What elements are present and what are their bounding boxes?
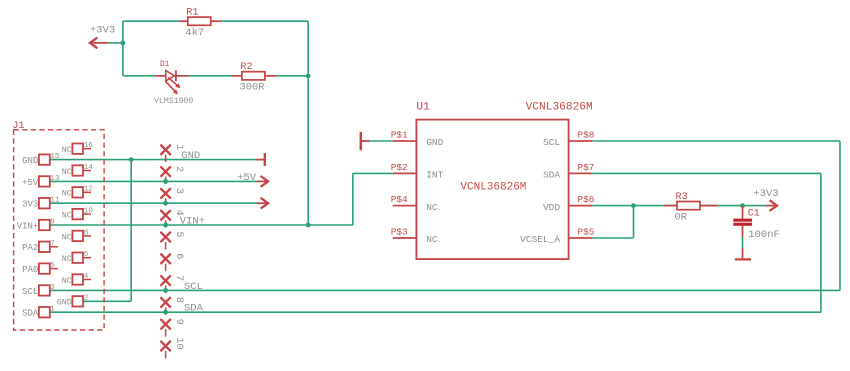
svg-text:NC: NC (62, 167, 72, 177)
svg-text:6: 6 (173, 253, 185, 259)
svg-text:R3: R3 (676, 192, 688, 203)
svg-text:SDA: SDA (184, 303, 204, 315)
svg-text:+5V: +5V (237, 172, 257, 184)
svg-text:3: 3 (50, 284, 55, 292)
svg-text:NC: NC (62, 254, 72, 264)
svg-text:P$2: P$2 (391, 162, 408, 173)
svg-text:PA0: PA0 (22, 265, 38, 275)
svg-text:SCL: SCL (184, 281, 203, 293)
svg-text:2: 2 (84, 295, 89, 303)
svg-text:VCNL36826M: VCNL36826M (526, 101, 593, 113)
svg-text:GND: GND (181, 150, 200, 162)
svg-text:5: 5 (173, 231, 185, 237)
svg-text:R1: R1 (186, 8, 198, 19)
svg-text:13: 13 (50, 175, 60, 183)
svg-text:0R: 0R (675, 211, 688, 223)
svg-text:2: 2 (173, 166, 185, 172)
svg-text:VLMS1900: VLMS1900 (154, 97, 193, 106)
svg-text:100nF: 100nF (748, 229, 780, 241)
svg-text:+3V3: +3V3 (90, 25, 115, 37)
svg-text:VCSEL_A: VCSEL_A (520, 234, 560, 245)
svg-text:NC: NC (62, 145, 72, 155)
svg-text:10: 10 (173, 337, 185, 349)
svg-text:GND: GND (426, 137, 443, 148)
svg-text:P$6: P$6 (578, 194, 595, 205)
svg-text:NC: NC (62, 232, 72, 242)
svg-text:VIN+: VIN+ (180, 215, 205, 227)
svg-text:J1: J1 (12, 121, 24, 132)
svg-text:C1: C1 (748, 208, 760, 219)
svg-text:NC: NC (426, 202, 438, 213)
svg-text:9: 9 (50, 218, 55, 226)
svg-text:300R: 300R (239, 82, 265, 94)
svg-text:U1: U1 (416, 101, 430, 113)
svg-text:NC: NC (62, 189, 72, 199)
svg-text:+5V: +5V (22, 178, 39, 188)
svg-text:INT: INT (426, 170, 443, 181)
svg-text:R2: R2 (240, 62, 252, 73)
svg-text:SDA: SDA (543, 170, 560, 181)
svg-text:P$5: P$5 (578, 227, 595, 238)
svg-text:P$3: P$3 (391, 227, 408, 238)
svg-text:15: 15 (50, 153, 60, 161)
svg-text:GND: GND (57, 298, 72, 308)
svg-text:SDA: SDA (22, 309, 39, 319)
svg-text:NC: NC (62, 276, 72, 286)
svg-text:SCL: SCL (543, 137, 560, 148)
svg-text:D1: D1 (160, 61, 170, 69)
svg-text:NC: NC (426, 234, 438, 245)
svg-text:1: 1 (50, 306, 55, 314)
svg-text:PA2: PA2 (22, 243, 38, 253)
svg-text:+3V3: +3V3 (753, 188, 778, 200)
svg-text:P$7: P$7 (578, 162, 595, 173)
svg-text:9: 9 (173, 319, 185, 325)
svg-text:P$8: P$8 (578, 130, 595, 141)
svg-text:11: 11 (50, 197, 60, 205)
svg-text:GND: GND (22, 156, 38, 166)
svg-text:VIN+: VIN+ (17, 221, 39, 231)
svg-text:P$1: P$1 (391, 130, 408, 141)
svg-text:NC: NC (62, 211, 72, 221)
svg-text:P$4: P$4 (391, 194, 408, 205)
svg-text:VDD: VDD (543, 202, 560, 213)
svg-text:3V3: 3V3 (22, 200, 38, 210)
svg-text:4k7: 4k7 (185, 27, 204, 39)
svg-text:VCNL36826M: VCNL36826M (460, 181, 526, 193)
svg-text:3: 3 (173, 188, 185, 194)
svg-text:SCL: SCL (22, 287, 38, 297)
